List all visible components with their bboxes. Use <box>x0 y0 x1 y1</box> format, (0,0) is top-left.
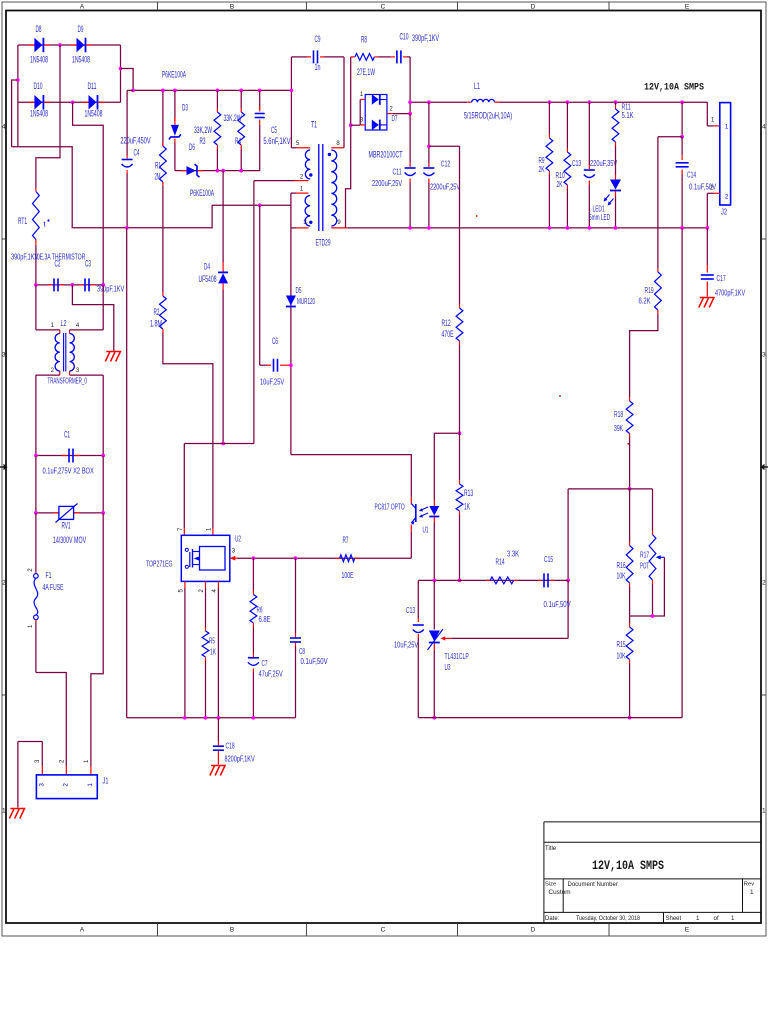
svg-text:C11: C11 <box>393 167 402 177</box>
wire C4 tap <box>127 89 133 91</box>
wire AC1 to RT1 <box>36 45 60 188</box>
T1 pin9 wire <box>331 227 348 229</box>
capacitor C1 <box>62 455 67 457</box>
IC U2 TOP271EG <box>181 535 230 581</box>
T1 polarity dot pin8 <box>328 153 331 156</box>
resistor R14 <box>486 579 490 581</box>
wire RV1 row <box>36 512 103 514</box>
svg-text:470E: 470E <box>442 329 454 339</box>
svg-text:J1: J1 <box>103 776 109 786</box>
wire J1 pin3 up <box>41 742 43 767</box>
svg-text:L2: L2 <box>61 318 67 328</box>
wire C13b down <box>417 638 419 718</box>
junction R12 tap <box>427 144 431 148</box>
svg-text:C6: C6 <box>272 336 278 346</box>
junction pin4/C18 rail <box>217 716 221 720</box>
inductor L1 <box>467 101 472 103</box>
svg-text:1: 1 <box>696 915 700 922</box>
svg-text:2M: 2M <box>155 172 161 182</box>
svg-text:C1: C1 <box>64 430 70 440</box>
T1 polarity dot pin2 <box>309 173 312 176</box>
junction LED1 rail <box>614 226 618 230</box>
svg-text:1: 1 <box>2 808 6 815</box>
svg-text:TRANSFORMER_0: TRANSFORMER_0 <box>48 376 87 386</box>
junction D3 top <box>173 89 177 93</box>
svg-text:B: B <box>230 926 234 933</box>
diode D10 <box>28 101 34 103</box>
fuse F1 <box>35 571 37 574</box>
junction C5 top <box>258 89 262 93</box>
svg-text:D6: D6 <box>189 142 195 152</box>
svg-text:1K: 1K <box>464 502 470 512</box>
svg-text:R5: R5 <box>209 636 215 646</box>
T1 secondary winding <box>331 150 336 226</box>
wire to R15 <box>629 616 631 623</box>
junction C6/D5 line <box>289 363 293 367</box>
svg-text:R13: R13 <box>464 488 473 498</box>
wire C12 top <box>428 102 430 163</box>
svg-text:8200pF,1KV: 8200pF,1KV <box>225 754 255 764</box>
junction R11 top <box>614 100 618 104</box>
svg-text:T1: T1 <box>311 120 317 130</box>
svg-text:C13: C13 <box>572 158 581 168</box>
svg-text:1n: 1n <box>315 62 321 72</box>
svg-text:1N5408: 1N5408 <box>72 55 90 65</box>
svg-text:1: 1 <box>731 915 735 922</box>
svg-text:R6: R6 <box>257 605 263 615</box>
wire to R17 <box>652 489 654 531</box>
ground C17 <box>700 297 715 299</box>
svg-text:3: 3 <box>762 352 766 359</box>
svg-text:1: 1 <box>762 808 766 815</box>
optocoupler U1 PC817 <box>410 525 412 533</box>
wire C4 top <box>126 90 128 155</box>
svg-text:D: D <box>531 4 536 11</box>
T1 polarity dot pin3 <box>309 221 312 224</box>
transformer L2 (common-mode choke) <box>63 333 65 372</box>
svg-text:R18: R18 <box>614 409 623 419</box>
capacitor C2 <box>48 284 52 286</box>
wire to R10 <box>566 102 568 148</box>
wire L2 pin2 down <box>35 375 37 455</box>
junction C6 branch <box>258 203 262 207</box>
wire to R6 <box>252 558 254 590</box>
svg-text:2200uF,25V: 2200uF,25V <box>430 182 460 192</box>
svg-text:Document Number: Document Number <box>568 882 618 888</box>
wire to C13b <box>417 580 419 618</box>
wire R17 bottom <box>652 584 654 616</box>
svg-text:R7: R7 <box>343 535 349 545</box>
wire bridge top row <box>18 44 121 46</box>
junction C3/AC2/L2 <box>101 283 105 287</box>
wire sense to C15 <box>567 489 569 581</box>
wire clamp row <box>175 170 260 172</box>
wire D3 to clamp row <box>174 143 176 171</box>
svg-text:220uF,450V: 220uF,450V <box>120 136 150 146</box>
junction R13 on fb line <box>458 579 462 583</box>
junction RT1/C2/L2 <box>34 283 38 287</box>
svg-text:Custom: Custom <box>549 889 571 896</box>
wire R10 bottom <box>566 189 568 228</box>
wire R7 to opto emitter <box>410 532 412 558</box>
wire opto LED anode to R12/R13 <box>434 433 459 500</box>
svg-text:12V,10A SMPS: 12V,10A SMPS <box>592 859 664 873</box>
mid-border alignment arrows <box>0 466 5 468</box>
junction R6 top <box>252 556 256 560</box>
diode D11 <box>82 101 89 103</box>
wire LED1 cathode <box>615 197 617 228</box>
junction D8-D9 (AC1) <box>58 43 62 47</box>
svg-text:of: of <box>714 915 719 922</box>
svg-text:39K: 39K <box>614 423 623 433</box>
wire TL431 ref horizontal <box>452 637 568 639</box>
wire to J1 pin1 <box>91 513 103 766</box>
svg-text:2200uF,25V: 2200uF,25V <box>372 178 402 188</box>
wire L2 pin3 down <box>102 375 104 455</box>
wire R6 to C7 <box>252 627 254 653</box>
junction C8 top <box>294 556 298 560</box>
T1 primary winding 1 <box>305 150 310 179</box>
wire output to J2 pin1 <box>706 102 708 126</box>
wire C10 to output line <box>409 57 411 102</box>
junction RV1 right <box>101 511 105 515</box>
wire C13 bottom <box>588 185 590 228</box>
svg-text:Title: Title <box>545 846 557 852</box>
svg-text:1.8M: 1.8M <box>150 319 162 329</box>
junction C15 right <box>566 579 570 583</box>
svg-text:10K: 10K <box>617 571 626 581</box>
junction D10-D11 (AC2) <box>71 100 75 104</box>
svg-text:C8: C8 <box>299 646 305 656</box>
junction B- left tap <box>16 78 20 82</box>
svg-text:R4: R4 <box>235 136 241 146</box>
diode D8 <box>28 44 34 46</box>
wire pin2 to R5 <box>205 588 207 627</box>
svg-text:2K: 2K <box>539 164 545 174</box>
column tick marks bottom strip <box>157 923 159 936</box>
svg-text:1N5408: 1N5408 <box>84 109 102 119</box>
wire C8 down <box>295 647 297 718</box>
wire R19 to R18 <box>630 314 658 397</box>
svg-text:5mm LED: 5mm LED <box>589 212 610 222</box>
wire divider mid <box>630 615 653 617</box>
svg-text:10uF,25V: 10uF,25V <box>260 377 284 387</box>
svg-text:C: C <box>381 4 386 11</box>
wire L2 pin4 link <box>70 329 104 331</box>
wire L2 pin2 link <box>36 374 60 376</box>
junction R9 rail <box>548 226 552 230</box>
svg-text:TL431CLP: TL431CLP <box>445 651 469 661</box>
wire RT1 to C2 row <box>35 245 37 285</box>
svg-text:E: E <box>685 926 690 933</box>
wire HV bus <box>133 89 291 91</box>
wire TL431 cathode <box>433 580 435 629</box>
junction TL431 rail <box>432 716 436 720</box>
svg-text:U1: U1 <box>423 525 429 535</box>
svg-text:D3: D3 <box>182 103 188 113</box>
svg-text:C3: C3 <box>85 259 91 269</box>
svg-text:1N5408: 1N5408 <box>30 109 48 119</box>
svg-text:Size: Size <box>545 882 556 888</box>
svg-text:J2: J2 <box>721 207 727 217</box>
junction C4 on B- bus <box>125 226 129 230</box>
wire C2 row to L2 pin1 <box>35 285 37 330</box>
svg-text:100E: 100E <box>342 570 354 580</box>
junction C17/J2pin2 rail <box>705 226 709 230</box>
U2 pin3 output <box>230 556 236 561</box>
wire to R9 <box>548 102 550 134</box>
svg-text:TOP271EG: TOP271EG <box>146 559 173 569</box>
svg-text:C17: C17 <box>717 273 726 283</box>
junction HV bus at T1 <box>290 89 294 93</box>
svg-text:C2: C2 <box>55 259 61 269</box>
wire R4 to clamp row <box>240 149 242 171</box>
wire B- to primary rail <box>126 228 128 718</box>
wire C9 left / pin5 vertical <box>290 57 292 148</box>
svg-text:MBR20100CT: MBR20100CT <box>369 150 403 160</box>
svg-text:R14: R14 <box>496 557 505 567</box>
svg-text:390pF,1KV: 390pF,1KV <box>97 284 124 294</box>
svg-text:P6KE100A: P6KE100A <box>162 70 186 80</box>
wire R9 bottom <box>548 175 550 228</box>
svg-text:10uF,25V: 10uF,25V <box>394 640 418 650</box>
wire L2 pin3 link <box>70 374 104 376</box>
wire down to U2 pin7 <box>183 444 185 529</box>
junction R15 rail <box>628 716 632 720</box>
junction C13 rail <box>587 226 591 230</box>
wire C9 right to pin8 <box>343 57 345 148</box>
diode D5 <box>286 296 296 306</box>
transformer T1 ETD29 <box>318 144 320 231</box>
wire L2 pin1 link <box>36 329 60 331</box>
wire D7 pins 1-3 strap <box>359 100 361 125</box>
svg-text:2K: 2K <box>557 179 563 189</box>
ground C18 <box>211 765 226 767</box>
wire C1 to RV1 right <box>102 456 104 513</box>
diode D9 <box>70 44 77 46</box>
junction C14 top <box>680 100 684 104</box>
junction D4 anode <box>221 442 225 446</box>
resistor R7 <box>336 557 340 559</box>
wire to R11 <box>615 102 617 105</box>
wire R13 bottom <box>459 515 461 580</box>
junction R19 branch <box>680 135 684 139</box>
svg-text:4: 4 <box>762 124 766 131</box>
junction C1 left <box>34 454 38 458</box>
opto LED <box>433 500 435 506</box>
svg-text:6.2K: 6.2K <box>639 296 651 306</box>
ground earth near L2 <box>106 351 121 353</box>
wire pin1-3 strap down to opto <box>290 193 292 455</box>
wire R5 down <box>205 661 207 718</box>
wire D4 to U2 pin7 line <box>222 290 224 444</box>
T1 pin5 wire <box>291 147 296 149</box>
junction RV1 left <box>34 511 38 515</box>
wire B+ to HV bus <box>121 69 134 91</box>
junction pin5 rail <box>183 716 187 720</box>
wire C4 bottom <box>126 174 128 228</box>
diode D7 MBR20100CT <box>365 95 387 131</box>
svg-text:B: B <box>230 4 234 11</box>
svg-text:2: 2 <box>762 580 766 587</box>
capacitor C10 <box>378 56 391 58</box>
svg-text:U2: U2 <box>235 534 241 544</box>
wire gnd loop vertical <box>681 228 683 718</box>
junction R9 top <box>548 100 552 104</box>
svg-text:C14: C14 <box>687 170 696 180</box>
junction HV bus / C4 <box>131 89 135 93</box>
wire C14 bottom <box>681 175 683 228</box>
svg-text:C7: C7 <box>262 658 268 668</box>
wire clamp row to D4 <box>222 171 224 262</box>
junction R1 top <box>161 89 165 93</box>
wire C1 to RV1 left <box>35 456 37 513</box>
svg-text:R3: R3 <box>200 136 206 146</box>
wire U2 pin7 horizontal <box>184 443 254 445</box>
svg-text:4700pF,1KV: 4700pF,1KV <box>715 288 745 298</box>
junction R3 bottom <box>216 169 220 173</box>
wire to TL431 ref <box>567 580 569 638</box>
wire to J1 pin2 <box>36 673 66 767</box>
capacitor C15 <box>538 579 542 581</box>
svg-text:27E,1W: 27E,1W <box>357 67 375 77</box>
junction R10 rail <box>566 226 570 230</box>
wire bridge left vertical (B-) <box>17 45 19 147</box>
connector J2 <box>720 103 731 205</box>
TL431 ref arrow <box>444 637 453 639</box>
svg-text:ETD29: ETD29 <box>315 238 330 248</box>
svg-text:R12: R12 <box>442 318 451 328</box>
svg-text:390pF,1KV: 390pF,1KV <box>412 33 439 43</box>
wire B- return bus to T1 pins 1/3 <box>12 147 291 228</box>
svg-text:14/300V MOV: 14/300V MOV <box>53 535 86 545</box>
svg-text:C9: C9 <box>315 34 321 44</box>
resistor R5 <box>205 581 207 588</box>
wire snubber-anode to pin9 <box>346 57 351 228</box>
svg-text:5/15ROD(2uH,10A): 5/15ROD(2uH,10A) <box>464 111 512 121</box>
wire rail to C18 <box>217 718 219 741</box>
wire C5 to clamp row <box>259 125 261 171</box>
svg-text:RV1: RV1 <box>61 521 70 531</box>
thermistor RT1 <box>35 188 37 192</box>
wire to R16 <box>629 489 631 542</box>
svg-text:RT1: RT1 <box>18 216 27 226</box>
svg-text:P6KE100A: P6KE100A <box>190 188 214 198</box>
U2 pin4 <box>217 581 219 588</box>
wire D7 out to line <box>409 102 411 113</box>
wire B- left jog <box>12 80 18 147</box>
svg-text:R15: R15 <box>617 639 626 649</box>
wire opto LED cathode down <box>433 523 435 581</box>
svg-text:10K: 10K <box>617 651 626 661</box>
svg-text:D4: D4 <box>204 262 210 272</box>
svg-text:47uF,25V: 47uF,25V <box>259 669 283 679</box>
svg-text:0.1uF,50V: 0.1uF,50V <box>544 599 571 609</box>
junction R4 top <box>239 89 243 93</box>
svg-text:Rev: Rev <box>744 882 754 888</box>
connector J1 <box>36 775 97 799</box>
svg-text:R16: R16 <box>617 560 626 570</box>
wire pin5 down <box>184 588 186 718</box>
wire C2/C3 row <box>36 284 103 286</box>
svg-text:MUR120: MUR120 <box>297 296 315 306</box>
junction R18/R16 sense <box>628 487 632 491</box>
wire to C13 <box>588 102 590 165</box>
svg-text:Date:: Date: <box>545 916 560 922</box>
wire J1 pin3 to earth <box>41 766 43 775</box>
wire bridge bottom row <box>18 101 121 103</box>
T1 primary winding 2 <box>305 196 310 227</box>
junction C12 rail <box>427 226 431 230</box>
svg-text:U3: U3 <box>445 662 451 672</box>
wire secondary ground rail <box>348 227 708 229</box>
svg-text:1: 1 <box>750 889 754 896</box>
TVS diode D6 <box>181 170 187 172</box>
svg-text:C10: C10 <box>399 32 408 42</box>
junction C1 right <box>101 454 105 458</box>
wire F1 to J1 <box>35 622 37 673</box>
wire to R19 <box>657 137 659 268</box>
junction R12/R13 <box>458 431 462 435</box>
svg-text:Tuesday, October 30, 2018: Tuesday, October 30, 2018 <box>576 915 640 922</box>
wire pin4 down <box>217 588 219 718</box>
svg-text:5.1K: 5.1K <box>622 110 634 120</box>
svg-text:3.3K: 3.3K <box>507 549 519 559</box>
svg-text:C12: C12 <box>441 159 450 169</box>
T1 pin8 wire <box>331 147 344 149</box>
svg-text:D5: D5 <box>296 285 302 295</box>
column tick marks top strip <box>157 2 159 11</box>
svg-text:4A FUSE: 4A FUSE <box>43 582 64 592</box>
wire T1 pin2 horizontal <box>254 180 294 182</box>
junction B+ right tap <box>119 67 123 71</box>
svg-text:D9: D9 <box>78 24 84 34</box>
svg-text:D8: D8 <box>36 24 42 34</box>
svg-text:2: 2 <box>2 580 6 587</box>
wire down to mains earth <box>17 742 19 808</box>
svg-text:D11: D11 <box>87 81 96 91</box>
wire to C14 <box>681 102 683 137</box>
wire R12 tap <box>429 145 460 147</box>
svg-text:6.8E: 6.8E <box>259 614 271 624</box>
wire C3 row to L2 pin4 <box>102 285 104 330</box>
wire R17 wiper loop <box>653 557 665 616</box>
wire secondary bottom rail <box>418 717 682 719</box>
U2 pin5 <box>184 581 186 588</box>
wire to D7 pin3 <box>351 124 361 126</box>
wire R15 bottom <box>629 664 631 718</box>
svg-text:C: C <box>381 926 386 933</box>
wire to C8 <box>295 558 297 633</box>
svg-text:F1: F1 <box>46 570 52 580</box>
junction C11 top <box>408 100 412 104</box>
svg-text:A: A <box>80 4 85 11</box>
svg-text:1K: 1K <box>210 647 216 657</box>
wire C11 bottom <box>409 183 411 228</box>
wire bus to C5 <box>259 90 261 109</box>
svg-text:D10: D10 <box>33 81 42 91</box>
wire R19 branch <box>658 136 682 138</box>
junction anode strap <box>349 123 353 127</box>
wire C1 row <box>36 455 103 457</box>
svg-text:R1: R1 <box>155 161 161 171</box>
resistor R8 <box>351 56 355 58</box>
wire feedback line <box>418 579 568 581</box>
junction D4 top <box>221 169 225 173</box>
svg-text:5.6nF,1KV: 5.6nF,1KV <box>263 136 290 146</box>
svg-text:POT: POT <box>640 561 649 571</box>
junction C7 rail <box>252 716 256 720</box>
